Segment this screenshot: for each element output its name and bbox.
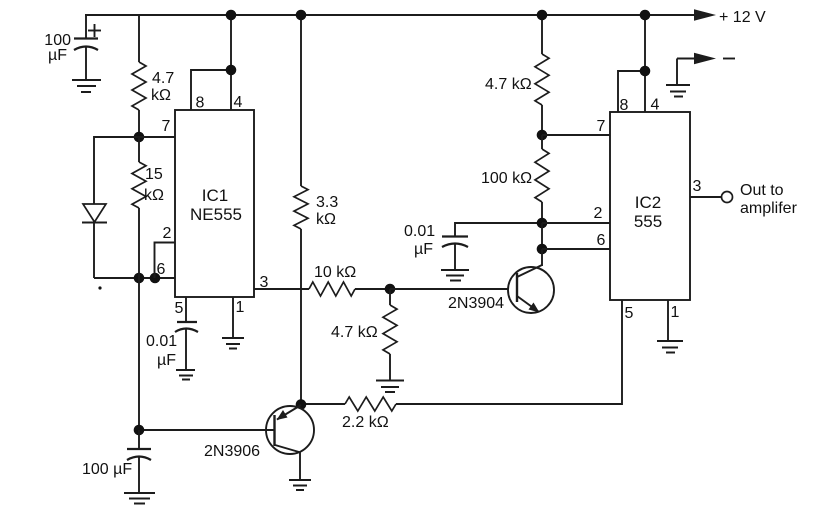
wire pin 7 IC2 [542, 134, 610, 136]
wire pin 1 IC1 [232, 297, 234, 338]
wire pin 1 IC2 [667, 300, 669, 341]
wire pin 6 row IC1 [94, 277, 175, 279]
wire left loop top [94, 137, 139, 204]
node dot pin7 IC2 [537, 130, 548, 141]
svg-text:1: 1 [671, 304, 680, 321]
IC2 pin 4 wire [644, 15, 646, 112]
svg-text:Out to: Out to [740, 182, 784, 199]
wire left rail down to transistor base [138, 278, 140, 430]
node dot rail at x=542 [537, 10, 548, 21]
resistor R8 2.2 kOhm [301, 397, 396, 431]
wire pin 6 IC2 [542, 248, 610, 250]
wire between pin2 and pin6 nodes [541, 223, 543, 249]
IC2 555 box [610, 112, 690, 300]
wire 10k to node [355, 288, 390, 290]
ground (C1) [72, 80, 101, 92]
svg-text:µF: µF [157, 352, 176, 369]
svg-text:15: 15 [145, 166, 163, 183]
capacitor C1 100uF top-left [44, 15, 101, 80]
IC1 pin 4 wire [230, 15, 232, 110]
node dot pin2 IC2 [537, 218, 548, 229]
negative supply terminal [677, 53, 735, 85]
node dot pin8/4 IC2 [640, 66, 651, 77]
wire pin 5 IC1 [185, 297, 187, 322]
capacitor C2 0.01uF (IC1 pin5) [146, 322, 198, 370]
resistor R6 4.7 kOhm (top right) [485, 15, 549, 135]
capacitor C4 100uF bottom [82, 430, 151, 493]
svg-text:4.7 kΩ: 4.7 kΩ [331, 324, 378, 341]
svg-text:0.01: 0.01 [404, 223, 435, 240]
resistor R2 15 kOhm [132, 137, 164, 278]
node dot (301,404) [296, 399, 307, 410]
transistor Q2 2N3906 [204, 405, 314, 480]
svg-text:2N3906: 2N3906 [204, 443, 260, 460]
svg-text:kΩ: kΩ [144, 187, 164, 204]
wire Q2 base [139, 429, 274, 431]
svg-text:5: 5 [625, 305, 634, 322]
svg-text:0.01: 0.01 [146, 333, 177, 350]
svg-text:1: 1 [236, 299, 245, 316]
svg-text:3.3: 3.3 [316, 194, 338, 211]
wire pin 5 IC2 down and across [396, 300, 622, 404]
diode D1 [82, 204, 107, 278]
resistor R4 3.3 kOhm [294, 15, 338, 404]
ground (C4) [124, 493, 155, 504]
svg-text:IC1: IC1 [202, 186, 228, 205]
svg-text:NE555: NE555 [190, 205, 242, 224]
node dot (155,278) [150, 273, 161, 284]
node dot pin6 IC2 [537, 244, 548, 255]
capacitor C3 0.01uF (IC2) [404, 223, 542, 270]
svg-text:5: 5 [175, 300, 184, 317]
svg-text:µF: µF [48, 47, 67, 64]
svg-text:amplifer: amplifer [740, 200, 798, 217]
svg-text:kΩ: kΩ [316, 211, 336, 228]
ground (C2) [176, 370, 195, 380]
svg-text:4.7: 4.7 [152, 70, 174, 87]
node dot rail at x=301 [296, 10, 307, 21]
wire pin 3 IC1 [254, 288, 309, 290]
IC1 NE555 box [175, 110, 254, 297]
resistor R7 100 kOhm [481, 135, 549, 223]
svg-text:10 kΩ: 10 kΩ [314, 264, 356, 281]
ground (negative terminal) [666, 85, 690, 97]
svg-text:2: 2 [163, 225, 172, 242]
resistor R3 10 kOhm [309, 264, 356, 296]
IC2 pin 8 wire [618, 71, 645, 112]
svg-text:IC2: IC2 [635, 193, 661, 212]
wire pin 7 IC1 [139, 136, 175, 138]
node dot (139,430) [134, 425, 145, 436]
ground (R5) [376, 381, 404, 393]
transistor Q1 2N3904 [448, 249, 554, 313]
node dot pin8/4 IC1 [226, 65, 237, 76]
wire pin 2 IC2 [542, 222, 610, 224]
svg-text:3: 3 [693, 178, 702, 195]
svg-text:µF: µF [414, 241, 433, 258]
node dot rail at x=645 [640, 10, 651, 21]
IC1 pin 8 wire [191, 70, 231, 110]
wire pin 2 IC1 [155, 243, 176, 279]
svg-text:2N3904: 2N3904 [448, 295, 504, 312]
ground (IC2 pin1) [657, 341, 683, 353]
svg-text:kΩ: kΩ [151, 87, 171, 104]
resistor R1 4.7 kOhm (left) [132, 15, 174, 137]
svg-text:100 µF: 100 µF [82, 461, 132, 478]
svg-text:4.7 kΩ: 4.7 kΩ [485, 76, 532, 93]
svg-text:4: 4 [234, 94, 243, 111]
stray speck [98, 286, 101, 289]
node dot rail at x=231 [226, 10, 237, 21]
node dot (390,289) [385, 284, 396, 295]
+12V arrowhead [694, 9, 716, 20]
svg-text:100 kΩ: 100 kΩ [481, 170, 532, 187]
wire top +12V rail [85, 14, 700, 16]
svg-text:7: 7 [597, 118, 606, 135]
svg-text:2: 2 [594, 205, 603, 222]
svg-text:+ 12 V: + 12 V [719, 9, 766, 26]
node dot (139,278) [134, 273, 145, 284]
ground (Q2) [289, 480, 311, 490]
ground (IC1 pin1) [222, 338, 244, 349]
svg-text:6: 6 [597, 232, 606, 249]
resistor R5 4.7 kOhm (middle) [331, 289, 397, 380]
node dot pin7 IC1 [134, 132, 145, 143]
svg-text:555: 555 [634, 212, 662, 231]
svg-text:2.2 kΩ: 2.2 kΩ [342, 414, 389, 431]
svg-text:4: 4 [651, 97, 660, 114]
svg-text:7: 7 [162, 118, 171, 135]
output terminal circle [722, 192, 733, 203]
wire pin 3 IC2 [690, 196, 722, 198]
svg-text:8: 8 [196, 95, 205, 112]
ground (C3) [441, 270, 469, 281]
wire node to 2N3904 base [390, 288, 517, 290]
